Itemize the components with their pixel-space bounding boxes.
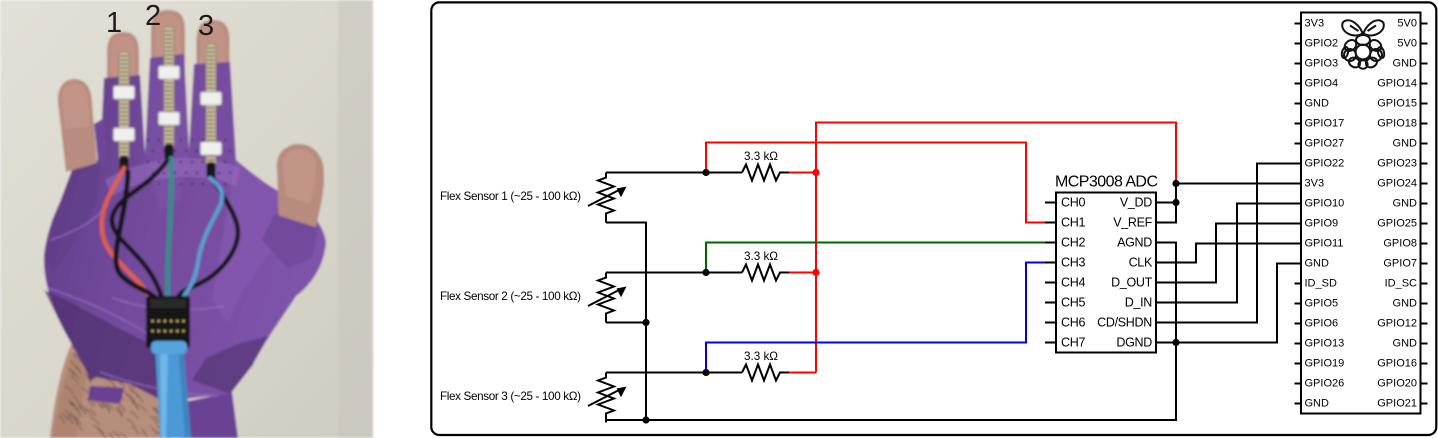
- svg-text:GPIO2: GPIO2: [1305, 37, 1339, 49]
- pin stub right GND: [1421, 203, 1428, 205]
- svg-text:GPIO20: GPIO20: [1377, 377, 1417, 389]
- photo: wall background: [0, 0, 373, 438]
- svg-text:GPIO17: GPIO17: [1305, 117, 1345, 129]
- svg-text:CD/SHDN: CD/SHDN: [1097, 316, 1152, 330]
- photo: wall right shading strip: [338, 0, 373, 438]
- pin stub right GPIO16: [1421, 363, 1428, 365]
- svg-text:5V0: 5V0: [1397, 17, 1417, 29]
- pin stub right GND: [1421, 303, 1428, 305]
- svg-text:GND: GND: [1393, 297, 1418, 309]
- wire: V_DD to 3.3V node: [1156, 202, 1176, 204]
- pin stub left GPIO17: [1295, 123, 1302, 125]
- svg-text:D_IN: D_IN: [1125, 296, 1153, 310]
- pin stub right GPIO14: [1421, 83, 1428, 85]
- junction: node 3 (FS3/R3/CH3): [702, 369, 709, 376]
- pin stub right 5V0: [1421, 43, 1428, 45]
- svg-text:Flex Sensor 1 (~25 - 100 kΩ): Flex Sensor 1 (~25 - 100 kΩ): [440, 190, 581, 203]
- svg-text:CH0: CH0: [1061, 196, 1085, 210]
- svg-text:V_DD: V_DD: [1120, 196, 1152, 210]
- photo: flex sensor strip 1: [119, 52, 129, 160]
- svg-text:GND: GND: [1393, 137, 1418, 149]
- svg-text:GND: GND: [1305, 97, 1330, 109]
- pin stub right GND: [1421, 63, 1428, 65]
- photo: wires from sensors to connector: [102, 158, 238, 300]
- svg-text:GPIO24: GPIO24: [1377, 177, 1417, 189]
- pin stub left GPIO2: [1295, 43, 1302, 45]
- svg-text:GPIO26: GPIO26: [1305, 377, 1345, 389]
- photo: glove scrap right of cable: [165, 392, 238, 438]
- svg-text:CH6: CH6: [1061, 316, 1085, 330]
- photo: ring fingertip skin: [197, 20, 230, 80]
- pin stub right GPIO21: [1421, 403, 1428, 405]
- photo: middle fingertip skin: [151, 10, 185, 72]
- pin stub right GPIO8: [1421, 243, 1428, 245]
- svg-text:GPIO7: GPIO7: [1383, 257, 1417, 269]
- pin stub right GPIO20: [1421, 383, 1428, 385]
- svg-text:GPIO9: GPIO9: [1305, 217, 1339, 229]
- junction: R1 right lead on red bus: [812, 169, 819, 176]
- svg-text:1: 1: [106, 7, 122, 39]
- photo: glove notch between pinky and index: [94, 118, 107, 162]
- svg-text:GPIO23: GPIO23: [1377, 157, 1417, 169]
- svg-text:ID_SC: ID_SC: [1385, 277, 1417, 289]
- svg-text:GND: GND: [1305, 397, 1330, 409]
- wire: V_REF up to V_DD node: [1156, 184, 1176, 223]
- svg-text:GPIO25: GPIO25: [1377, 217, 1417, 229]
- wire: D_IN to Pi GPIO10: [1156, 204, 1301, 303]
- photo: glove knuckle highlight: [105, 158, 240, 196]
- wire: R3 right lead to 3.3V bus (red): [789, 372, 816, 374]
- pin stub right GND: [1421, 143, 1428, 145]
- svg-text:CH1: CH1: [1061, 216, 1085, 230]
- photo: flex sensor strip 2: [164, 27, 174, 148]
- wire: AGND down to ground riser: [1156, 243, 1176, 343]
- wire: CLK to Pi GPIO11: [1156, 244, 1301, 263]
- svg-text:GPIO5: GPIO5: [1305, 297, 1339, 309]
- svg-text:2: 2: [145, 0, 161, 32]
- wire: FS3 bottom to bottom ground rail: [606, 419, 646, 421]
- junction: DGND/AGND/ground rail node: [1172, 339, 1179, 346]
- svg-text:Flex Sensor 3 (~25 - 100 kΩ): Flex Sensor 3 (~25 - 100 kΩ): [440, 390, 581, 403]
- pin stub right GPIO25: [1421, 223, 1428, 225]
- svg-text:5V0: 5V0: [1397, 37, 1417, 49]
- svg-text:GND: GND: [1305, 257, 1330, 269]
- svg-text:GPIO19: GPIO19: [1305, 357, 1345, 369]
- junction: node 2 (FS2/R2/CH2): [702, 269, 709, 276]
- svg-text:D_OUT: D_OUT: [1111, 276, 1153, 290]
- wire: D_OUT to Pi GPIO9: [1156, 224, 1301, 283]
- svg-text:GPIO11: GPIO11: [1305, 237, 1344, 249]
- pin stub CH4: [1045, 282, 1056, 284]
- pin stub left GPIO19: [1295, 363, 1302, 365]
- pin stub left GPIO5: [1295, 303, 1302, 305]
- pin stub right GPIO23: [1421, 163, 1428, 165]
- photo: finger labels 1 2 3: [106, 0, 214, 42]
- svg-text:CH5: CH5: [1061, 296, 1085, 310]
- pin stub left GPIO13: [1295, 343, 1302, 345]
- pin stub left GPIO6: [1295, 323, 1302, 325]
- svg-text:CH7: CH7: [1061, 336, 1085, 350]
- pin stub right GPIO12: [1421, 323, 1428, 325]
- svg-text:GPIO6: GPIO6: [1305, 317, 1339, 329]
- pin stub left ID_SD: [1295, 283, 1302, 285]
- junction: ground bus meets bottom rail: [642, 416, 649, 423]
- svg-text:GND: GND: [1393, 337, 1418, 349]
- photo: glove body (purple): [44, 54, 326, 401]
- pin stub left GPIO26: [1295, 383, 1302, 385]
- svg-text:GPIO27: GPIO27: [1305, 137, 1345, 149]
- photo: forearm skin: [50, 324, 192, 438]
- svg-text:GND: GND: [1393, 57, 1418, 69]
- pin stub left 3V3: [1295, 23, 1302, 25]
- pin stub left GND: [1295, 103, 1302, 105]
- photo: arm hair strokes: [59, 346, 186, 438]
- junction: red bus meets 3V3 wire: [1172, 180, 1179, 187]
- svg-text:3V3: 3V3: [1305, 17, 1325, 29]
- svg-text:CLK: CLK: [1129, 256, 1153, 270]
- svg-text:AGND: AGND: [1117, 236, 1152, 250]
- pin stub right GPIO15: [1421, 103, 1428, 105]
- schematic outer border frame: [431, 2, 1436, 435]
- svg-text:V_REF: V_REF: [1113, 216, 1152, 230]
- resistor R3 3.3 kOhm: [742, 365, 789, 381]
- svg-text:GPIO12: GPIO12: [1377, 317, 1417, 329]
- wire: FS2 bottom to ground bus: [606, 322, 646, 324]
- resistor R1 3.3 kOhm: [742, 165, 789, 181]
- wire: node2 to CH2 (green signal): [706, 243, 1045, 273]
- svg-text:CH4: CH4: [1061, 276, 1085, 290]
- wire: R2 right lead to 3.3V bus (red): [789, 272, 816, 274]
- pin stub CH0: [1045, 202, 1056, 204]
- resistor R2 3.3 kOhm: [742, 265, 789, 281]
- photo: thumb (bare): [277, 144, 324, 232]
- pin stub right GPIO18: [1421, 123, 1428, 125]
- pin stub left GPIO4: [1295, 83, 1302, 85]
- svg-text:Flex Sensor 2 (~25 - 100 kΩ): Flex Sensor 2 (~25 - 100 kΩ): [440, 290, 581, 303]
- svg-text:3V3: 3V3: [1305, 177, 1325, 189]
- photo: glove cuff seams: [48, 204, 224, 396]
- pin stub CH7: [1045, 342, 1056, 344]
- photo: black connector block: [146, 296, 190, 348]
- svg-text:GND: GND: [1393, 197, 1418, 209]
- wire: FS1 top terminal to node 1: [606, 172, 742, 174]
- pin stub right 5V0: [1421, 23, 1428, 25]
- pin stub left GND: [1295, 403, 1302, 405]
- pin stub CH3: [1045, 262, 1056, 264]
- svg-text:GPIO10: GPIO10: [1305, 197, 1345, 209]
- Raspberry Pi logo: [1341, 20, 1386, 69]
- svg-text:GPIO22: GPIO22: [1305, 157, 1345, 169]
- pin stub right GND: [1421, 343, 1428, 345]
- svg-text:3.3 kΩ: 3.3 kΩ: [744, 350, 778, 363]
- wire: R1 right lead to 3.3V bus (red): [789, 172, 816, 174]
- svg-text:GPIO15: GPIO15: [1377, 97, 1417, 109]
- flex sensor FS2 (variable resistor symbol): [588, 273, 627, 323]
- svg-text:GPIO4: GPIO4: [1305, 77, 1339, 89]
- svg-text:MCP3008 ADC: MCP3008 ADC: [1055, 173, 1158, 190]
- wire: FS3 top terminal to node 3: [606, 372, 742, 374]
- Raspberry Pi GPIO header J1 body: [1301, 13, 1421, 414]
- svg-text:GPIO14: GPIO14: [1377, 77, 1417, 89]
- junction: V_DD node: [1172, 199, 1179, 206]
- photo: pinky finger (bare): [58, 79, 97, 172]
- wire: bottom ground rail to AGND/DGND riser: [646, 343, 1176, 421]
- svg-text:GPIO21: GPIO21: [1377, 397, 1417, 409]
- junction: R2 right lead on red bus: [812, 269, 819, 276]
- pin stub right GPIO7: [1421, 263, 1428, 265]
- wire: FS2 top terminal to node 2: [606, 272, 742, 274]
- svg-text:GPIO8: GPIO8: [1383, 237, 1417, 249]
- wire: 3.3V node to Pi pin 3V3: [1176, 183, 1301, 185]
- flex sensor FS1 (variable resistor symbol): [588, 173, 627, 223]
- pin stub CH1: [1045, 222, 1056, 224]
- svg-text:GPIO13: GPIO13: [1305, 337, 1345, 349]
- photo: glove flap over arm: [88, 386, 124, 404]
- photo: index fingertip skin: [107, 32, 139, 92]
- wire: ground bus down to bottom rail: [645, 323, 647, 421]
- svg-text:3: 3: [198, 10, 214, 42]
- svg-text:GPIO18: GPIO18: [1377, 117, 1417, 129]
- wire: node1 to CH1 (red signal): [706, 143, 1045, 223]
- wire: node3 to CH3 (blue signal): [706, 263, 1045, 373]
- wire: red 3.3V bus vertical and top run to Pi 3V3 column: [816, 123, 1176, 373]
- pin stub CH6: [1045, 322, 1056, 324]
- photo: glove web over thumb base: [262, 214, 318, 268]
- pin stub left GPIO3: [1295, 63, 1302, 65]
- svg-text:GPIO3: GPIO3: [1305, 57, 1339, 69]
- photo: glove shading regions: [44, 290, 174, 401]
- photo: glove vent dots: [147, 139, 231, 185]
- pin stub right GPIO24: [1421, 183, 1428, 185]
- svg-text:ID_SD: ID_SD: [1305, 277, 1337, 289]
- photo: blue cable: [155, 344, 191, 438]
- pin stub right ID_SC: [1421, 283, 1428, 285]
- svg-text:DGND: DGND: [1116, 336, 1152, 350]
- pin stub CH2: [1045, 242, 1056, 244]
- junction: FS2 bottom on ground bus: [642, 319, 649, 326]
- svg-text:CH3: CH3: [1061, 256, 1085, 270]
- svg-text:CH2: CH2: [1061, 236, 1085, 250]
- pin stub CH5: [1045, 302, 1056, 304]
- wire: FS1 bottom to ground bus: [606, 223, 646, 323]
- pin stub left GPIO27: [1295, 143, 1302, 145]
- IC U1 MCP3008 ADC body: [1056, 193, 1156, 353]
- svg-text:3.3 kΩ: 3.3 kΩ: [744, 150, 778, 163]
- flex sensor FS3 (variable resistor symbol): [588, 373, 627, 423]
- svg-text:3.3 kΩ: 3.3 kΩ: [744, 250, 778, 263]
- photo: flex sensor strip 3: [206, 44, 216, 166]
- svg-text:GPIO16: GPIO16: [1377, 357, 1417, 369]
- wire: CD/SHDN to Pi GPIO22: [1156, 164, 1301, 323]
- junction: node 1 (FS1/R1/CH1): [702, 169, 709, 176]
- wire: DGND to ground riser and to Pi GND: [1156, 264, 1301, 343]
